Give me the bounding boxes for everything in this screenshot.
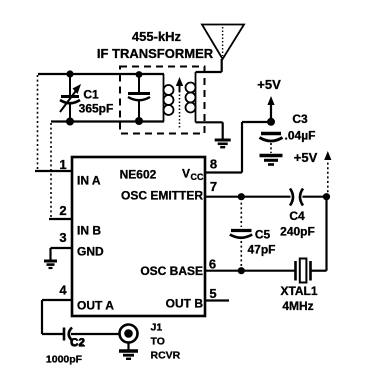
svg-text:240pF: 240pF: [280, 225, 315, 239]
svg-text:7: 7: [210, 179, 217, 194]
svg-text:C4: C4: [289, 209, 305, 223]
svg-text:J1: J1: [151, 322, 163, 334]
svg-text:OUT A: OUT A: [77, 299, 114, 313]
svg-text:+5V: +5V: [257, 77, 281, 92]
svg-text:C3: C3: [292, 112, 308, 126]
svg-text:C5: C5: [255, 228, 271, 242]
svg-text:IF TRANSFORMER: IF TRANSFORMER: [97, 46, 214, 61]
svg-text:365pF: 365pF: [79, 102, 114, 116]
svg-text:8: 8: [210, 157, 217, 172]
svg-text:.04µF: .04µF: [285, 129, 316, 143]
svg-text:C1: C1: [83, 88, 99, 102]
svg-text:TO: TO: [151, 336, 165, 348]
svg-text:IN A: IN A: [77, 174, 101, 188]
svg-text:C2: C2: [71, 337, 85, 349]
svg-text:2: 2: [59, 203, 66, 218]
svg-text:XTAL1: XTAL1: [280, 284, 317, 298]
svg-text:OSC EMITTER: OSC EMITTER: [121, 189, 203, 203]
svg-text:GND: GND: [77, 245, 104, 259]
svg-text:1: 1: [59, 157, 66, 172]
svg-text:4: 4: [59, 283, 67, 298]
svg-text:+5V: +5V: [294, 150, 318, 165]
svg-text:4MHz: 4MHz: [282, 299, 313, 313]
svg-text:6: 6: [209, 257, 216, 272]
svg-text:1000pF: 1000pF: [46, 354, 83, 365]
svg-text:OSC BASE: OSC BASE: [140, 264, 203, 278]
svg-text:RCVR: RCVR: [151, 350, 181, 362]
svg-text:CC: CC: [191, 172, 204, 182]
svg-text:NE602: NE602: [120, 168, 157, 182]
svg-text:455-kHz: 455-kHz: [132, 29, 182, 44]
svg-text:IN B: IN B: [77, 224, 101, 238]
svg-text:OUT B: OUT B: [166, 297, 204, 311]
svg-text:3: 3: [59, 230, 66, 245]
svg-text:V: V: [182, 167, 190, 181]
svg-text:5: 5: [209, 286, 216, 301]
svg-text:47pF: 47pF: [247, 243, 275, 257]
